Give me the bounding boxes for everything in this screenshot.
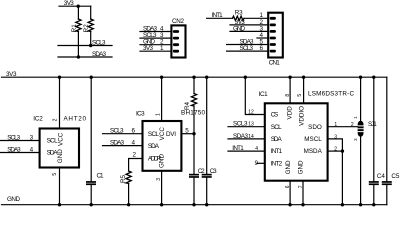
solder jumper SJ1 [358, 121, 364, 137]
wire SDA3 to IC1 pin 14 [228, 138, 265, 140]
svg-text:3: 3 [334, 135, 337, 141]
wire IC1 GND pin 7 to GND rail [302, 181, 304, 205]
capacitor C2 [189, 174, 199, 178]
svg-text:SDA3: SDA3 [110, 140, 124, 147]
svg-text:3V3: 3V3 [143, 45, 153, 52]
svg-text:SCL3: SCL3 [7, 134, 20, 141]
svg-text:SCL: SCL [148, 131, 159, 138]
wire INT1 to IC1 pin 4 [228, 150, 265, 152]
svg-text:IC1: IC1 [259, 91, 268, 98]
resistor R2 [88, 19, 93, 32]
svg-text:R5: R5 [120, 174, 127, 183]
svg-text:C4: C4 [377, 173, 385, 180]
svg-text:SDA3: SDA3 [233, 133, 248, 140]
resistor R3 [233, 16, 245, 20]
wire SCL3 to IC3 pin 6 [103, 133, 143, 135]
wire C4 top lead from 3V3 [373, 77, 375, 181]
svg-text:2: 2 [351, 122, 354, 128]
svg-text:SCL: SCL [271, 124, 282, 131]
wire IC3 ADDR pin 2 [129, 159, 143, 172]
svg-text:SCL: SCL [47, 138, 58, 145]
svg-text:2: 2 [53, 118, 59, 121]
wire R1 bottom lead to SDA3 [77, 32, 79, 58]
svg-text:GND: GND [233, 25, 245, 32]
node 3V3 pullup stub [59, 5, 91, 7]
svg-text:4: 4 [30, 146, 34, 153]
junction dot GND/R5 [127, 203, 130, 206]
svg-text:SCL3: SCL3 [240, 45, 254, 52]
svg-text:IC2: IC2 [33, 115, 43, 122]
wire SDA3 to IC3 pin 4 [103, 145, 143, 147]
svg-text:4: 4 [131, 140, 135, 147]
wire CN2 pin 2 GND [140, 44, 171, 46]
wire IC1 CS pin 12 to 3V3 [245, 77, 264, 114]
svg-text:SDO: SDO [308, 124, 322, 131]
svg-text:INT1: INT1 [232, 145, 244, 152]
junction dot GND/MSDA [341, 203, 344, 206]
junction dot GND/IC1 pin7 [301, 203, 304, 206]
svg-text:R4: R4 [184, 101, 191, 110]
svg-text:SDA: SDA [271, 136, 283, 143]
wire IC3 DVI pin 5 [181, 133, 194, 135]
svg-text:VCC: VCC [57, 132, 64, 146]
svg-text:SDA3: SDA3 [7, 146, 21, 153]
svg-text:CN1: CN1 [269, 59, 280, 66]
junction dot DVI/R4/C2 [192, 132, 195, 135]
svg-text:13: 13 [248, 122, 254, 128]
wire R3 to CN1 pin 1 [244, 17, 268, 19]
svg-text:7: 7 [298, 185, 304, 188]
svg-text:GND: GND [57, 149, 64, 163]
junction dot GND/C4 [372, 203, 375, 206]
wire SJ1 bottom lead to GND [360, 137, 362, 205]
svg-text:MSDA: MSDA [304, 148, 323, 155]
svg-text:1: 1 [155, 113, 161, 116]
svg-text:IC3: IC3 [136, 111, 145, 118]
svg-text:INT1: INT1 [271, 148, 283, 155]
svg-text:3V3: 3V3 [6, 71, 17, 78]
wire CN1 pin 2 3V3 [230, 24, 268, 26]
junction dot GND/SJ1 [359, 203, 362, 206]
junction dot GND/C3 [205, 203, 208, 206]
svg-text:R2: R2 [83, 24, 90, 33]
svg-text:9: 9 [255, 161, 259, 167]
wire SJ1 top lead from 3V3 [360, 77, 362, 121]
svg-text:R1: R1 [71, 24, 78, 33]
connector CN1 [268, 13, 283, 58]
wire IC1 MSCL pin 3 [328, 139, 343, 151]
junction dot 3V3/IC3 [160, 76, 163, 79]
svg-text:SCL3: SCL3 [92, 39, 106, 46]
svg-text:GND: GND [298, 160, 305, 174]
pin stub CN1 pin 4 [257, 37, 268, 39]
svg-text:1: 1 [160, 45, 164, 52]
wire IC3 VCC pin 1 to 3V3 [161, 77, 163, 121]
junction dot GND/IC2 [58, 203, 61, 206]
wire C2 bottom lead to GND [193, 178, 195, 205]
wire IC2 VCC pin 2 to 3V3 [59, 77, 61, 128]
svg-text:3: 3 [156, 178, 162, 181]
wire R1 top lead [77, 6, 79, 19]
svg-text:3: 3 [353, 138, 358, 141]
junction dot GND/C2 [192, 203, 195, 206]
wire INT1 to R3 [207, 17, 233, 19]
wire IC1 MSDA pin 2 [328, 150, 343, 152]
svg-text:5: 5 [52, 173, 58, 176]
svg-text:1: 1 [353, 116, 358, 119]
junction dot 3V3/VDDIO [302, 76, 305, 79]
wire C5 top lead from 3V3 corner [386, 77, 388, 181]
svg-text:GND: GND [7, 196, 20, 203]
wire IC1 SDO pin 1 to SJ1 [328, 126, 358, 128]
svg-text:AHT20: AHT20 [64, 115, 87, 122]
svg-text:DVI: DVI [166, 131, 176, 138]
svg-text:3V3: 3V3 [64, 0, 74, 7]
svg-text:LSM6DS3TR-C: LSM6DS3TR-C [308, 91, 354, 98]
svg-text:6: 6 [259, 45, 263, 52]
junction dot 3V3/CS [244, 76, 247, 79]
junction dot GND/IC3 [160, 203, 163, 206]
svg-text:4: 4 [255, 146, 258, 152]
junction dot at 3V3 stub [77, 5, 80, 8]
svg-text:VDD: VDD [286, 106, 293, 120]
wire CN2 pin 1 3V3 [140, 50, 171, 52]
svg-text:GND: GND [159, 154, 166, 168]
wire CN1 pin 5 SDA3 [227, 44, 269, 46]
capacitor C5 [382, 181, 392, 185]
wire SCL3 to IC1 pin 13 [228, 126, 265, 128]
svg-text:5: 5 [185, 128, 189, 135]
junction dot GND/C1 [90, 203, 93, 206]
wire R2 top lead [90, 6, 92, 19]
svg-text:VCC: VCC [159, 127, 166, 141]
svg-text:3: 3 [30, 134, 34, 141]
junction dot R1/SDA3 [77, 55, 80, 58]
wire CN1 pin 6 SCL3 [227, 50, 269, 52]
svg-text:MSCL: MSCL [304, 136, 322, 143]
svg-text:5: 5 [297, 94, 303, 97]
svg-text:C3: C3 [210, 168, 217, 175]
junction dot 3V3/C3 [205, 76, 208, 79]
wire SCL3 to IC2 pin 3 [0, 140, 40, 142]
junction dot 3V3/C1 [90, 76, 93, 79]
svg-text:14: 14 [248, 134, 254, 140]
svg-text:6: 6 [131, 128, 135, 135]
wire IC1 VDDIO pin 5 to 3V3 [303, 77, 305, 103]
pin stub IC1 INT2 pin 9 [257, 162, 265, 164]
svg-text:C5: C5 [391, 173, 399, 180]
wire C4 bottom lead to GND [373, 185, 375, 205]
svg-text:SJ1: SJ1 [368, 121, 377, 128]
connector CN2 [171, 25, 185, 57]
wire 3V3 power rail [2, 76, 387, 78]
op-amp IC3 body [143, 121, 182, 171]
svg-text:SDA: SDA [148, 143, 160, 150]
junction dot 3V3/IC2 [58, 76, 61, 79]
svg-text:C1: C1 [97, 172, 104, 179]
svg-text:CS: CS [271, 112, 279, 119]
junction dot 3V3/R4 [192, 76, 195, 79]
svg-text:CN2: CN2 [172, 18, 184, 25]
wire C3 top lead from 3V3 [206, 77, 208, 174]
svg-text:12: 12 [248, 109, 254, 115]
wire R2 bottom lead to SCL3 [90, 32, 92, 46]
svg-text:INT1: INT1 [212, 12, 223, 19]
transistor IC1 body [265, 103, 328, 180]
svg-text:GND: GND [285, 160, 292, 174]
svg-text:6: 6 [285, 185, 291, 188]
junction dot MSCL/MSDA [341, 149, 344, 152]
svg-text:INT2: INT2 [271, 160, 283, 167]
wire C1 top lead from 3V3 [90, 77, 92, 181]
svg-text:SCL3: SCL3 [233, 121, 248, 128]
wire IC1 VDD pin 8 to 3V3 [289, 77, 291, 103]
wire IC2 GND pin 5 to GND rail [59, 168, 61, 205]
junction dot R2/SCL3 [89, 44, 92, 47]
capacitor C1 [86, 181, 96, 185]
capacitor C3 [202, 174, 212, 178]
wire R4 top lead from 3V3 [193, 77, 195, 93]
wire C3 bottom lead to GND [206, 178, 208, 205]
junction dot 3V3/C4 [372, 76, 375, 79]
svg-text:2: 2 [132, 152, 136, 159]
wire SDA3 stub (top-left) [58, 56, 112, 58]
capacitor C4 [369, 181, 379, 185]
wire IC3 GND pin 3 to GND rail [161, 171, 163, 205]
svg-text:1: 1 [334, 122, 337, 128]
resistor R5 [126, 171, 131, 184]
wire R5 to GND [128, 184, 130, 205]
wire GND rail [2, 204, 387, 206]
resistor R4 [191, 94, 196, 107]
wire CN2 pin 3 SCL3 [140, 37, 171, 39]
wire C1 bottom lead to GND [90, 185, 92, 205]
wire CN2 pin 4 SDA3 [140, 31, 171, 33]
resistor R1 [76, 19, 81, 32]
op-amp IC2 body [40, 129, 79, 168]
svg-text:SDA3: SDA3 [92, 51, 106, 58]
svg-text:2: 2 [334, 147, 337, 153]
svg-text:SCL3: SCL3 [110, 128, 124, 135]
wire IC1 GND pin 6 to GND rail [289, 181, 291, 205]
svg-text:VDDIO: VDDIO [298, 106, 305, 126]
junction dot 3V3/VDD [288, 76, 291, 79]
junction dot 3V3/SJ1 [359, 76, 362, 79]
svg-text:R3: R3 [235, 10, 243, 17]
svg-text:8: 8 [285, 94, 291, 97]
wire C5 bottom lead to GND corner [386, 185, 388, 205]
wire SCL3 stub (top-left) [58, 45, 112, 47]
wire R4 bottom lead to DVI node [193, 106, 195, 174]
wire CN1 pin 3 GND [230, 30, 268, 32]
wire MSDA node to GND [341, 151, 343, 205]
wire SDA3 to IC2 pin 4 [0, 152, 40, 154]
junction dot GND/IC1 pin6 [288, 203, 291, 206]
